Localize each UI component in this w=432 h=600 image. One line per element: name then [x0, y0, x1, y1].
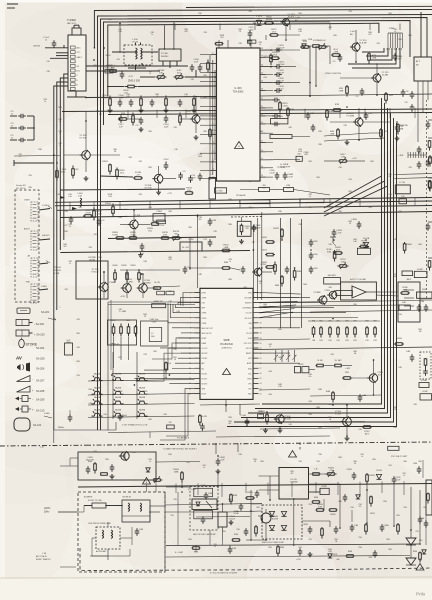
diode reg d1	[146, 468, 150, 472]
svg-text:R32B: R32B	[105, 203, 111, 205]
wire ic1 right joins	[266, 50, 311, 160]
resistor R313	[207, 60, 210, 73]
pot VP31	[171, 231, 182, 241]
label top speckle 8	[220, 35, 225, 39]
junction dot b13	[376, 63, 378, 65]
label mid speckle 16	[168, 291, 172, 293]
label top speckle 14	[46, 61, 50, 63]
wire stub midh 11	[414, 108, 416, 118]
label pw speckle 8	[170, 515, 174, 517]
label speckle 104	[308, 504, 312, 506]
label speckle 42	[63, 244, 67, 248]
label top speckle 36	[28, 175, 32, 177]
svg-text:1n: 1n	[149, 461, 151, 463]
switch SA222	[137, 396, 148, 404]
wire stub bus2 1	[69, 202, 71, 210]
junction dot 13	[358, 139, 360, 141]
label speckle 96	[238, 454, 242, 456]
wire stub bus2 5	[179, 200, 181, 208]
label speckle 109	[188, 539, 192, 541]
inductor L306 transformer	[124, 39, 152, 65]
ground gC	[164, 108, 169, 113]
label mid speckle 20	[243, 301, 247, 303]
svg-text:OSC OUT: OSC OUT	[244, 343, 252, 345]
wire top bus 1	[94, 10, 432, 48]
capacitor C337	[274, 86, 284, 93]
capacitor C50B mid	[216, 457, 226, 466]
label mid speckle 22	[76, 319, 80, 321]
pot VP307	[174, 70, 185, 80]
ic IL300 left pin nums	[212, 53, 214, 179]
text bottom tiny left	[40, 447, 45, 449]
wire stub midh 2	[156, 110, 158, 118]
wire smps leads	[259, 474, 341, 500]
wire pw ladder 11	[403, 481, 405, 495]
wire x1 lead3	[39, 261, 50, 265]
resistor R421	[326, 391, 334, 403]
capacitor C346b	[269, 170, 279, 180]
wire right vbundle 5	[234, 118, 394, 422]
label speckle 68	[263, 304, 267, 308]
label speckle 102	[173, 499, 177, 501]
wire stub bus2 11	[359, 198, 361, 206]
transistor VT308b	[128, 215, 141, 229]
junction dot 23	[293, 498, 295, 500]
svg-text:100R: 100R	[85, 213, 91, 215]
capacitor C20	[208, 218, 217, 226]
label speckle 11	[408, 35, 412, 37]
svg-text:R42B: R42B	[273, 228, 279, 230]
diode VD3B tr	[302, 40, 307, 48]
junction dot b15	[396, 121, 398, 123]
resistor R348	[332, 104, 342, 111]
junction dot b38	[246, 425, 248, 427]
wire pw left v	[155, 470, 157, 492]
junction dot b1	[164, 48, 166, 50]
capacitor C336	[274, 78, 284, 85]
wire diag 3	[324, 186, 388, 216]
wire tr drop 1	[354, 23, 379, 33]
ic CPU left pin labels b	[202, 293, 214, 396]
ic IL300 right pins	[260, 50, 266, 177]
block right edge pv	[426, 480, 432, 515]
ground gP	[139, 127, 144, 132]
svg-text:C336: C336	[282, 106, 288, 108]
wire pw v1	[250, 490, 252, 540]
label speckle 91	[328, 417, 332, 421]
transistor VT501	[119, 451, 136, 461]
svg-text:KOUT: KOUT	[202, 394, 207, 396]
junction dot b14	[346, 106, 348, 108]
label speckle 28	[38, 149, 42, 151]
wire cpu L ext 10	[175, 342, 195, 344]
wire tr fan 2	[366, 48, 388, 56]
label speckle 34	[348, 191, 352, 195]
ic D501 SMPS	[279, 468, 309, 500]
label speckle 76	[308, 374, 312, 378]
legend SA206 mute	[17, 363, 45, 372]
svg-text:U/SV25: U/SV25	[33, 46, 41, 48]
svg-text:R42B: R42B	[121, 265, 127, 267]
label speckle 35	[388, 194, 392, 196]
svg-text:(UNIVOX): (UNIVOX)	[222, 347, 232, 349]
label top speckle 39	[148, 167, 152, 169]
block KOMP2	[420, 391, 432, 400]
resistor R42Bv	[273, 228, 283, 240]
junction dot 6	[215, 76, 217, 78]
junction dot 16	[294, 267, 296, 269]
junction dot 5	[53, 154, 55, 156]
wire kb mid	[114, 337, 129, 368]
wire zm row	[108, 85, 217, 88]
label speckle 52	[143, 261, 147, 263]
svg-text:1MB: 1MB	[174, 472, 179, 474]
fuse FU101	[84, 497, 122, 509]
capacitor C right edge	[405, 91, 415, 112]
wire stub midh 4	[229, 109, 231, 118]
junction dot b9	[195, 96, 197, 98]
capacitor pwr col3	[418, 516, 423, 524]
svg-text:BUZ9B: BUZ9B	[272, 518, 279, 520]
label speckle 103	[228, 499, 232, 503]
svg-text:2M: 2M	[169, 422, 172, 424]
switch SA232	[137, 408, 148, 416]
block SRAP	[104, 64, 114, 73]
label speckle 49	[418, 244, 422, 246]
block PRMB	[320, 486, 329, 495]
legend SA203	[16, 330, 45, 336]
wire cpu R12	[259, 352, 291, 354]
label speckle 54	[198, 274, 202, 276]
label speckle 24	[298, 149, 303, 153]
label mid speckle 3	[148, 207, 152, 209]
wire power h2	[165, 504, 262, 513]
svg-text:259·¼: 259·¼	[110, 343, 120, 347]
svg-text:KELBM: KELBM	[283, 419, 291, 421]
svg-text:KLB BF: KLB BF	[359, 43, 367, 45]
wire power dash bottom	[80, 548, 330, 571]
svg-text:1n: 1n	[59, 145, 61, 147]
junction dot b24	[142, 273, 144, 275]
wire pw net 4	[339, 484, 341, 528]
svg-text:C53B: C53B	[302, 524, 308, 526]
svg-text:1n: 1n	[59, 121, 61, 123]
svg-text:2.2uF: 2.2uF	[278, 73, 284, 75]
label speckle 56	[258, 281, 262, 285]
capacitor C52F	[392, 476, 402, 484]
ground gK	[278, 428, 283, 433]
svg-text:C42B: C42B	[312, 241, 318, 243]
wire tuner lead 3	[56, 55, 71, 57]
svg-text:C3B: C3B	[368, 113, 373, 115]
label speckle 93	[105, 459, 109, 461]
wire right edge stub 4	[428, 178, 432, 191]
resistor R347	[380, 128, 389, 140]
label mid speckle 30	[173, 349, 177, 351]
switch SA201	[113, 373, 124, 381]
junction dot b42	[265, 539, 267, 541]
label mid speckle 31	[103, 414, 107, 416]
label speckle 44	[203, 257, 207, 259]
resistor R309	[165, 96, 168, 109]
capacitor pwr col1	[413, 463, 421, 474]
junction dot 21	[250, 510, 252, 512]
capacitor C42B kb	[200, 423, 205, 431]
pot R752	[338, 259, 349, 269]
svg-text:1n: 1n	[59, 133, 61, 135]
capacitor C346	[283, 172, 294, 180]
connector X301 stubs	[387, 28, 402, 50]
resistor R343v	[368, 52, 377, 64]
resistor pw r2	[413, 551, 421, 563]
svg-text:LMB: LMB	[372, 58, 377, 60]
block audio amp	[341, 278, 377, 300]
ic IL300 left pins	[211, 55, 217, 179]
svg-text:R9B: R9B	[297, 271, 302, 273]
svg-text:SM LM: SM LM	[319, 40, 326, 42]
pot arrow 4	[292, 355, 296, 360]
label pw speckle 14	[358, 537, 362, 539]
wire pw net 9	[217, 469, 219, 487]
resistor R526	[321, 527, 324, 539]
block mid box2	[336, 291, 353, 296]
label top speckle 15	[46, 71, 50, 73]
label top speckle 13	[398, 39, 402, 41]
svg-text:PCA84C640: PCA84C640	[220, 343, 233, 346]
resistor R3B tr	[312, 40, 321, 47]
svg-text:+12V: +12V	[274, 21, 279, 23]
resistor R50B	[173, 469, 183, 483]
wire cpu L3	[178, 303, 195, 305]
label speckle 112	[298, 547, 302, 549]
wire pw ladder 4	[245, 483, 247, 493]
rect bridge diodes	[262, 505, 302, 544]
junction dot 7	[141, 63, 143, 65]
capacitor C334	[274, 62, 285, 69]
resistor R316h	[185, 188, 194, 195]
wire vt311	[103, 272, 105, 298]
label speckle 63	[118, 357, 122, 359]
legend SA210	[15, 406, 45, 412]
svg-text:SA 206: SA 206	[36, 367, 45, 371]
block A301 right edge	[414, 57, 432, 81]
label speckle 98	[318, 454, 322, 456]
junction dot 14	[253, 249, 255, 251]
label speckle 9	[368, 32, 372, 36]
label speckle 80	[398, 314, 402, 316]
svg-text:32: 32	[260, 343, 262, 345]
svg-text:0.47uF: 0.47uF	[158, 225, 165, 227]
svg-text:PS 144: PS 144	[54, 267, 62, 269]
triangle warn pw	[143, 478, 151, 485]
label top speckle 33	[318, 131, 322, 133]
wire kb top h1	[108, 301, 200, 303]
wire sound chain	[190, 268, 272, 272]
capacitor C524	[334, 526, 339, 534]
svg-text:SA2MB: SA2MB	[115, 396, 122, 399]
capacitor pw extra2	[228, 546, 237, 554]
svg-text:+7K: +7K	[136, 175, 140, 177]
wire ic1 pinrow L3	[200, 72, 211, 74]
svg-text:C5B: C5B	[413, 463, 418, 465]
wire ic1 pinrow R4	[266, 74, 274, 76]
svg-text:JO JN6: JO JN6	[216, 191, 222, 193]
resistor R37B	[160, 232, 170, 239]
svg-text:3PL 201 00: 3PL 201 00	[16, 188, 26, 190]
resistor RBF kb	[165, 362, 172, 379]
label pw speckle 10	[350, 507, 354, 509]
junction dot 28	[93, 59, 95, 61]
power dashed box	[78, 492, 165, 572]
resistor R501	[88, 461, 96, 474]
label speckle 39	[228, 224, 232, 226]
capacitor C353b	[136, 117, 144, 127]
wire vd chain	[410, 545, 412, 550]
svg-text:AVT: AVT	[365, 433, 370, 436]
wire pw mid h	[227, 511, 262, 512]
wire kb bottom	[54, 422, 116, 430]
capacitor C307c	[163, 159, 169, 170]
label speckle 22	[198, 154, 203, 158]
label mid speckle 2	[78, 207, 82, 209]
svg-text:SA 209: SA 209	[36, 398, 45, 402]
capacitor C376	[241, 266, 246, 274]
junction dot b31	[165, 377, 167, 379]
svg-text:1n: 1n	[229, 261, 231, 263]
junction dot 9	[270, 66, 272, 68]
svg-text:R52B: R52B	[369, 475, 375, 477]
capacitor C333	[274, 45, 285, 52]
svg-text:MC: MC	[416, 65, 420, 67]
wire right edge stub 6	[428, 258, 432, 271]
label speckle 57	[303, 284, 307, 286]
wire pw ladder 8	[337, 482, 339, 495]
wire ic1 pinrow L7	[200, 115, 211, 117]
resistor R318v	[263, 54, 272, 66]
svg-text:AV: AV	[16, 356, 22, 361]
resistor R52v	[366, 473, 376, 485]
wire pw v3	[293, 499, 295, 545]
block L310 coil box	[209, 174, 216, 199]
wire pw net 8	[246, 523, 266, 540]
wire right v 253	[252, 225, 254, 300]
wire vt312b	[127, 274, 158, 298]
junction dot 30	[189, 267, 191, 269]
label speckle 55	[228, 279, 232, 281]
wire pw rail vert	[178, 492, 210, 545]
capacitor pw l1	[204, 492, 213, 500]
tuner block	[67, 18, 86, 91]
svg-text:BA P: BA P	[407, 278, 412, 281]
svg-text:KT3102: KT3102	[91, 272, 99, 274]
wire right edge stub 2	[428, 138, 432, 151]
wire vt314 c	[350, 30, 356, 62]
svg-text:R3B: R3B	[329, 111, 334, 113]
switch SA210	[92, 386, 103, 394]
svg-text:+7uF: +7uF	[219, 460, 225, 462]
svg-text:SA2MB: SA2MB	[139, 396, 146, 399]
wire tie y428	[260, 428, 340, 429]
label speckle 94	[148, 459, 152, 463]
wire ic1 pinrow L2	[200, 62, 211, 64]
svg-text:UVF1: UVF1	[202, 293, 206, 295]
junction dot c2	[315, 85, 317, 87]
wire pw inner 3	[120, 527, 132, 545]
svg-text:L3 3MH: L3 3MH	[275, 116, 283, 118]
label pw speckle 12	[308, 539, 312, 541]
svg-text:4K7: 4K7	[368, 34, 371, 36]
svg-text:KBL04 MOST BAV KOMP: KBL04 MOST BAV KOMP	[262, 541, 285, 544]
resistor reg r1	[100, 473, 108, 476]
junction dot b16	[253, 241, 255, 243]
svg-text:1+1MB: 1+1MB	[119, 311, 127, 313]
wire left h163	[14, 160, 54, 166]
svg-text:34: 34	[260, 333, 262, 335]
resistor R312h	[83, 210, 93, 217]
wire kb row3	[88, 404, 195, 406]
label top speckle 24	[58, 119, 62, 123]
wire cpu L ext 7	[172, 327, 195, 329]
svg-text:CONTRAST: CONTRAST	[242, 307, 251, 310]
svg-text:ZM5.0 305: ZM5.0 305	[128, 80, 141, 83]
wire y252 h	[60, 251, 250, 253]
wire stub bus2 2	[93, 201, 95, 209]
wire ic1 pinrow R16	[266, 176, 274, 178]
resistor R308	[140, 96, 143, 109]
svg-text:+27V: +27V	[167, 193, 173, 195]
svg-text:5.6P: 5.6P	[194, 62, 199, 64]
resistor R422b	[362, 426, 372, 436]
pot arrow 3	[286, 355, 290, 360]
svg-text:+7uF: +7uF	[336, 233, 342, 235]
capacitor C374	[183, 266, 190, 274]
label speckle 40	[298, 224, 302, 226]
label mid speckle 17	[213, 289, 217, 291]
label speckle 90	[308, 414, 312, 416]
svg-text:1n: 1n	[69, 226, 71, 228]
wire cpu fan 6	[259, 312, 294, 318]
svg-text:MMB2 2M: MMB2 2M	[154, 301, 163, 303]
junction dot b12	[309, 95, 311, 97]
label speckle 18	[228, 104, 232, 106]
capacitor C304	[118, 95, 125, 107]
svg-text:RESET: RESET	[246, 353, 252, 355]
resistor R321	[269, 29, 279, 36]
capacitor C526	[380, 524, 390, 532]
resistor R356b	[287, 107, 295, 119]
label speckle 81	[418, 329, 422, 333]
svg-text:L33P: L33P	[396, 59, 402, 61]
svg-text:C2B: C2B	[212, 220, 217, 222]
junction dot b46	[393, 525, 395, 527]
svg-text:R45B: R45B	[130, 265, 136, 267]
wire dashed y217	[231, 216, 262, 219]
label mid speckle 35	[288, 424, 292, 426]
capacitor C14F	[252, 224, 262, 232]
svg-text:SA2MB: SA2MB	[115, 408, 122, 411]
transistor VT30B below	[274, 414, 291, 424]
label top speckle 2	[148, 19, 152, 21]
capacitor C525	[350, 524, 359, 532]
capacitor C341r	[272, 122, 280, 127]
ground gO	[194, 135, 199, 140]
block L3 coil	[271, 116, 288, 124]
svg-text:0.22uF: 0.22uF	[278, 64, 285, 66]
svg-text:C48B: C48B	[383, 525, 389, 527]
svg-text:R44B: R44B	[406, 244, 412, 246]
ic IL300 body	[217, 48, 261, 181]
svg-text:10K: 10K	[159, 73, 163, 75]
